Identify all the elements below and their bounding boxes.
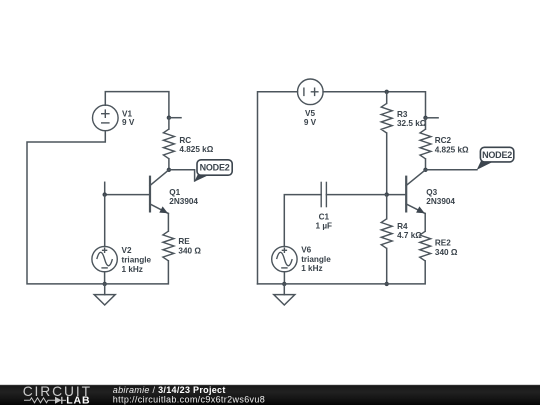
resistor RE: [163, 231, 201, 261]
source V5 9V (horizontal): [298, 79, 324, 127]
svg-text:RE2: RE2: [435, 239, 451, 248]
node base junction dot: [103, 192, 107, 196]
wire to NODE2 flag right: [426, 169, 477, 171]
svg-text:LAB: LAB: [66, 395, 90, 405]
wire RC bottom lead: [168, 159, 170, 170]
wire V2 to ground rail: [104, 272, 106, 284]
source V6 triangle 1kHz: [272, 245, 332, 273]
svg-text:Q3: Q3: [426, 188, 437, 197]
resistor R4: [381, 219, 422, 249]
wire RC top lead: [168, 118, 170, 129]
svg-text:NODE2: NODE2: [482, 150, 512, 160]
svg-text:V5: V5: [305, 109, 315, 118]
ground symbol left: [94, 284, 115, 305]
svg-text:V2: V2: [122, 246, 132, 255]
svg-text:R4: R4: [397, 222, 408, 231]
source V1 9V: [93, 105, 135, 131]
wire V5 left down to bottom rail: [258, 92, 298, 284]
wire stub above base node: [104, 182, 106, 194]
transistor Q1 2N3904: [150, 170, 199, 214]
svg-text:2N3904: 2N3904: [169, 197, 198, 206]
node RC2 top junction: [423, 116, 427, 120]
node base junction Q3: [385, 192, 389, 196]
wire R3 top lead: [386, 92, 388, 104]
resistor RC: [163, 129, 213, 159]
wire RC2 top lead: [425, 118, 427, 129]
wire R4 bottom lead: [386, 248, 388, 284]
svg-text:Q1: Q1: [169, 188, 180, 197]
svg-text:32.5 kΩ: 32.5 kΩ: [397, 119, 427, 128]
svg-text:RE: RE: [178, 237, 190, 246]
wire V6 to bottom rail: [283, 272, 285, 284]
node collector junction Q1: [167, 168, 171, 172]
svg-text:1 kHz: 1 kHz: [122, 265, 143, 274]
footer bar: [0, 385, 540, 405]
wire V1 bottom loop to ground rail: [27, 131, 105, 284]
svg-text:V6: V6: [301, 245, 311, 254]
svg-text:RC: RC: [179, 136, 191, 145]
svg-text:NODE2: NODE2: [200, 163, 230, 173]
wire bottom rail right circuit: [258, 261, 426, 284]
node collector junction Q3: [423, 168, 427, 172]
svg-text:1 µF: 1 µF: [316, 222, 333, 231]
ground symbol right: [274, 284, 295, 305]
node R3 top junction: [385, 90, 389, 94]
wire emitter Q3 to RE2: [424, 214, 426, 232]
svg-text:http://circuitlab.com/c9x6tr2w: http://circuitlab.com/c9x6tr2ws6vu8: [113, 394, 265, 404]
svg-text:4.825 kΩ: 4.825 kΩ: [435, 146, 469, 155]
svg-text:9 V: 9 V: [122, 118, 135, 127]
svg-text:340 Ω: 340 Ω: [435, 248, 458, 257]
svg-text:2N3904: 2N3904: [426, 197, 455, 206]
node flag NODE2 (right): [477, 147, 514, 170]
wire emitter Q1 to RE: [167, 214, 169, 232]
footer project line: [113, 385, 226, 395]
resistor RE2: [420, 231, 458, 261]
node R4 bottom junction: [385, 282, 389, 286]
resistor RC2: [420, 129, 469, 159]
svg-text:9 V: 9 V: [304, 118, 317, 127]
node ground junction left: [103, 282, 107, 286]
wire to NODE2 flag left: [169, 170, 195, 181]
resistor R3: [381, 103, 427, 133]
wire C1 left plate to V6: [284, 195, 321, 247]
svg-text:4.825 kΩ: 4.825 kΩ: [179, 145, 213, 154]
footer url line: [113, 394, 265, 404]
wire RC2 bottom lead: [425, 159, 427, 170]
wire R3 bottom to base node: [386, 133, 388, 195]
logo CIRCUIT LAB: [23, 384, 92, 405]
svg-text:triangle: triangle: [122, 256, 152, 265]
wire stub right of RC top: [169, 117, 181, 119]
svg-text:triangle: triangle: [301, 255, 331, 264]
svg-text:C1: C1: [319, 212, 330, 221]
capacitor C1: [316, 182, 333, 231]
wire RE bottom to ground rail: [105, 261, 169, 284]
transistor Q3 2N3904: [406, 170, 455, 214]
svg-text:4.7 kΩ: 4.7 kΩ: [397, 231, 422, 240]
svg-text:1 kHz: 1 kHz: [301, 264, 322, 273]
node ground junction right: [282, 282, 286, 286]
wire base Q1: [105, 194, 150, 196]
wire base node to V2: [104, 195, 106, 247]
wire stub right of RC2 top: [426, 117, 439, 119]
node flag NODE2 (left): [194, 160, 232, 182]
svg-text:340 Ω: 340 Ω: [178, 246, 201, 255]
svg-text:RC2: RC2: [435, 136, 452, 145]
wire top rail left circuit: [105, 92, 169, 118]
wire top rail right circuit: [323, 92, 425, 118]
source V2 triangle 1kHz: [92, 246, 152, 274]
wire C1 right plate to base node: [326, 194, 386, 196]
svg-text:R3: R3: [397, 110, 408, 119]
wire base Q3: [387, 194, 407, 196]
wire R4 top lead: [386, 195, 388, 219]
node RC-top junction dot: [167, 116, 171, 120]
